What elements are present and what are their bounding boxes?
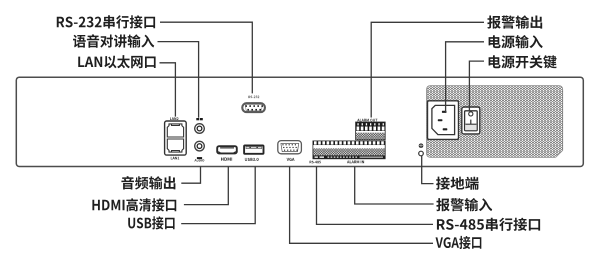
label alarm output: [487, 15, 542, 28]
wire alarm-out label: [371, 22, 484, 117]
audio out jack (lower RCA): [195, 141, 205, 151]
label AUDIO: [195, 157, 205, 161]
wire power-switch label: [469, 61, 484, 112]
VGA DE-15 connector: [278, 141, 302, 154]
label RS-485: [310, 161, 321, 164]
wire RS-232 label: [160, 22, 252, 93]
label RS-232: [248, 96, 259, 99]
wire power-in label: [446, 42, 484, 113]
label HDMI: [221, 158, 232, 161]
label USB port: [128, 216, 174, 229]
label LAN1: [171, 157, 179, 160]
wire voice-in label: [158, 42, 199, 118]
USB 3.0 port: [244, 145, 263, 153]
wire RS-485 label: [317, 166, 434, 224]
label audio output: [121, 176, 175, 189]
label power input: [489, 35, 543, 48]
HDMI port: [217, 146, 237, 153]
ground screw: [419, 143, 424, 148]
audio in jack (upper RCA): [195, 124, 205, 134]
wire ground label: [422, 156, 434, 184]
power rocker switch: [462, 107, 480, 134]
label HDMI port: [92, 198, 176, 211]
voice intercom input (two pin marks): [196, 118, 202, 120]
alarm in / RS-485 terminal block: [313, 141, 385, 159]
wire HDMI label: [184, 166, 228, 204]
wire USB label: [181, 166, 255, 223]
label USB3.0: [245, 158, 259, 161]
label ground terminal: [436, 177, 479, 190]
label VGA: [287, 158, 295, 161]
label VGA port: [436, 236, 482, 249]
label RS-485 serial port: [437, 218, 540, 231]
label alarm input: [436, 198, 492, 211]
PSU perforated vent area: [427, 86, 563, 158]
wire audio-out label: [181, 166, 200, 183]
alarm out terminal block: [356, 122, 386, 140]
label RS-232 serial port: [57, 15, 155, 28]
label power switch: [489, 55, 557, 68]
wire VGA label: [290, 166, 433, 243]
label LAN2: [170, 117, 179, 120]
chassis rear panel: [16, 77, 583, 166]
wire LAN label: [160, 63, 176, 117]
label ALARM OUT: [357, 119, 377, 122]
label ALARM IN: [347, 161, 364, 164]
wire alarm-in label: [355, 166, 434, 204]
label LAN ethernet port: [78, 55, 155, 68]
ground terminal hole: [419, 151, 424, 156]
LAN RJ45 dual port housing: [165, 121, 187, 155]
power inlet C14 socket: [428, 101, 459, 140]
RS-232 DB9 serial connector: [242, 103, 265, 112]
label voice intercom input: [73, 34, 154, 47]
